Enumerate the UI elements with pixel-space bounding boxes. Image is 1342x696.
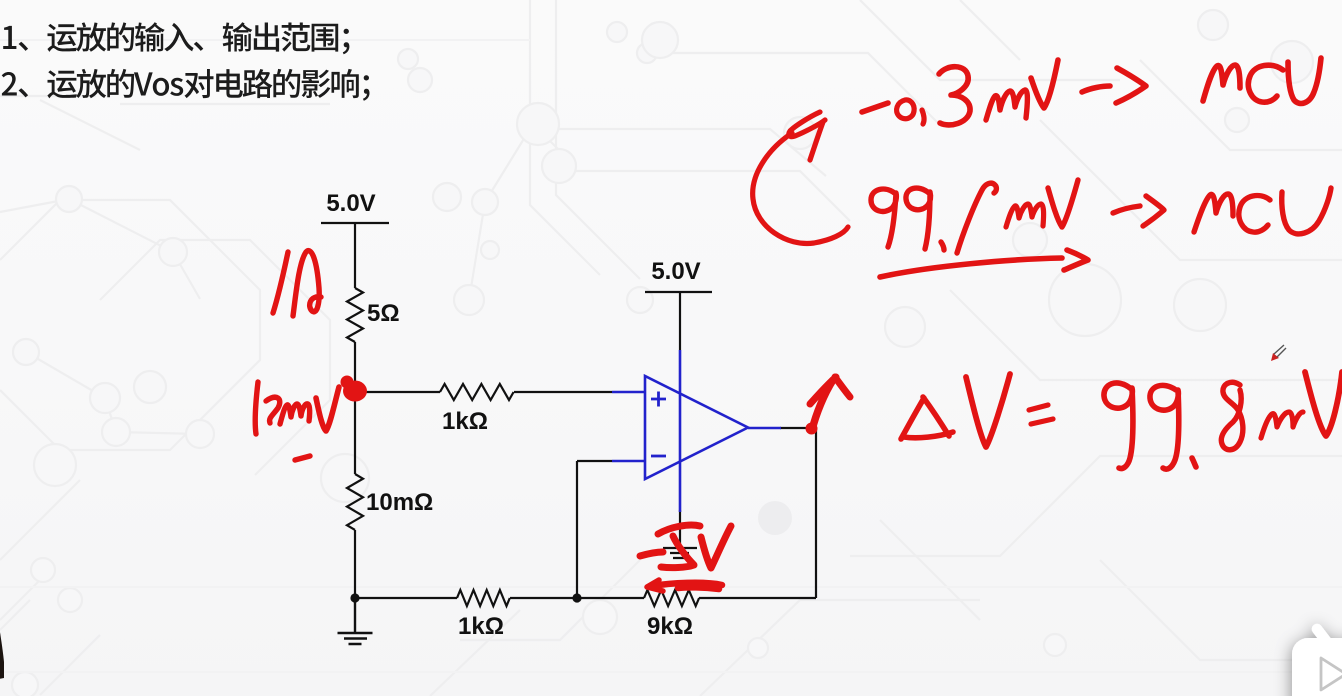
line1: U [1288, 58, 1321, 103]
svg-text:1kΩ: 1kΩ [442, 408, 488, 435]
video logo (bottom-right watermark) [1292, 629, 1342, 696]
resistor R5 9kΩ (horizontal zigzag) [644, 590, 699, 606]
line3: equals [1029, 405, 1053, 424]
line1: 3 [939, 67, 970, 125]
line2: underline arrowhead [1064, 250, 1088, 270]
annotation strikethrough underline 1 [652, 583, 722, 586]
line3: 8 [1221, 382, 1243, 449]
annotation output arrow shaft [812, 380, 833, 430]
line2: m [1006, 204, 1044, 227]
line2: M [1194, 194, 1233, 232]
wire: feedback node to op-amp - input [577, 460, 612, 462]
title line 1 [3, 22, 349, 54]
annotation curly hook tail [810, 122, 823, 160]
ground symbol (op-amp V-, crossed out) [663, 548, 697, 558]
svg-text:1kΩ: 1kΩ [458, 613, 504, 640]
line2: U [1282, 188, 1331, 234]
resistor R4 1kΩ (horizontal zigzag, bottom) [457, 590, 510, 606]
line2: point [941, 242, 944, 250]
wire: node A to R2 [354, 392, 356, 474]
line1: minus [862, 103, 888, 112]
annotation output arrowhead right barb [835, 377, 850, 397]
annotation -5V: minus [640, 552, 663, 556]
annotation 15mV: "V" [316, 387, 339, 431]
line1: arrowhead [1116, 68, 1146, 103]
annotation "1" of 1A [273, 252, 288, 313]
annotation strikethrough arrowhead [647, 580, 663, 591]
annotation "A" of 1A [293, 251, 321, 316]
line2: underline arrow shaft [880, 258, 1062, 277]
op-amp + input pin [612, 391, 645, 394]
line3: V [1305, 372, 1342, 436]
line2: C [1239, 196, 1270, 233]
annotation big C sweep [753, 133, 848, 244]
pencil cursor [1271, 345, 1286, 361]
resistor R2 10mΩ (vertical zigzag) [347, 474, 363, 530]
svg-text:5.0V: 5.0V [651, 258, 700, 285]
wire: V- pin to ground symbol [679, 510, 681, 548]
line3: V [966, 374, 1010, 447]
line3: point [1192, 458, 1196, 467]
line2: 9 second [906, 188, 931, 249]
junction: ground node [350, 593, 359, 602]
wire: R3 to op-amp + input [514, 391, 612, 393]
op-amp output pin [748, 427, 781, 430]
line1: C [1248, 65, 1283, 102]
annotation -5V: top stroke [658, 525, 700, 534]
annotation output arrowhead left barb [810, 377, 836, 404]
line2: arrow dash [1113, 206, 1140, 213]
line3: 9 second [1150, 385, 1179, 469]
annotation 15mV: "5" [266, 397, 280, 423]
line3: 9 first [1104, 383, 1133, 469]
wire: R2 to ground node [354, 530, 356, 598]
wire: output vertical [815, 428, 817, 598]
title line 2 [2, 69, 370, 101]
svg-text:10mΩ: 10mΩ [366, 489, 433, 516]
annotation -5V: "5" diagonal [661, 536, 694, 568]
power rail bar (left 5.0V) [321, 222, 389, 224]
line2: 5 [957, 183, 996, 253]
op-amp U1 [612, 350, 781, 512]
line1: arrow dash [1082, 86, 1110, 92]
wire: left rail to R1 [354, 223, 356, 288]
line1: m [986, 90, 1027, 120]
output red dot [806, 423, 818, 435]
annotation 15mV: "m" [280, 404, 310, 424]
resistor R3 1kΩ (horizontal zigzag, + input) [440, 384, 514, 400]
black object at left edge [0, 626, 4, 679]
op-amp - input pin [612, 460, 645, 463]
wire: ground node to R4 [355, 597, 457, 599]
line1: comma [922, 110, 924, 124]
line2: arrowhead [1143, 196, 1164, 226]
wire: R1 to node A [354, 342, 356, 392]
line3: m [1261, 412, 1303, 438]
line2: 9 first [871, 189, 896, 247]
wire: node A to R3 [355, 391, 440, 393]
line3: delta [901, 397, 953, 439]
supply label 5.0V (left rail) [326, 190, 700, 640]
resistor R1 5Ω (vertical zigzag) [347, 288, 363, 342]
junction: feedback node [572, 593, 581, 602]
op-amp + symbol [651, 392, 666, 407]
line1: 0 [897, 100, 915, 119]
svg-text:5.0V: 5.0V [326, 190, 375, 217]
wire: R5 to output corner [699, 597, 816, 599]
line1: V [1031, 60, 1058, 108]
op-amp − symbol [651, 455, 666, 458]
annotation 15mV: "1" [255, 382, 258, 434]
annotation curly hook loop [789, 112, 825, 137]
logo play triangle [1321, 658, 1342, 690]
svg-text:9kΩ: 9kΩ [647, 613, 693, 640]
line2: V [1048, 180, 1078, 227]
wire: R4 to feedback node [510, 597, 644, 599]
wire: op-amp rail to V+ pin [679, 292, 681, 350]
line1: M [1203, 65, 1240, 101]
annotation -5V: "V" [701, 526, 731, 568]
annotation strikethrough underline 2 [678, 587, 719, 589]
op-amp supply pin (through) [679, 350, 682, 512]
node A red blob [341, 376, 818, 435]
annotation minus sign [295, 456, 310, 460]
wire: feedback vertical [576, 461, 578, 598]
ground symbol (main) [338, 598, 373, 644]
svg-text:5Ω: 5Ω [367, 300, 400, 327]
power rail bar (op-amp 5.0V) [645, 291, 712, 293]
wire: op-amp output black segment [780, 427, 817, 429]
